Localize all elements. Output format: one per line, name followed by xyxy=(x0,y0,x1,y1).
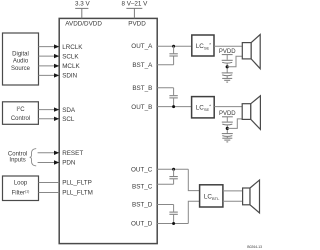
svg-text:SCL: SCL xyxy=(62,116,75,123)
block Digital Audio Source xyxy=(3,33,39,85)
svg-text:OUT_C: OUT_C xyxy=(131,166,153,173)
capacitor divider B lower (polarized) xyxy=(222,133,233,135)
node OUT_D junction xyxy=(172,222,175,225)
wire SCLK xyxy=(39,55,56,57)
wire speaker B return xyxy=(227,119,242,128)
wire OUT_C elbow to LC_BTL xyxy=(188,169,199,190)
svg-text:8 V–21 V: 8 V–21 V xyxy=(121,1,148,8)
wire speaker A return xyxy=(227,56,242,67)
svg-text:B0264-13: B0264-13 xyxy=(247,245,262,249)
svg-text:SCLK: SCLK xyxy=(62,53,79,60)
svg-text:LRCLK: LRCLK xyxy=(62,44,83,51)
svg-text:LCSE*: LCSE* xyxy=(196,104,211,113)
wire OUT_A xyxy=(157,45,192,47)
arrowhead SCL xyxy=(54,117,59,121)
wire BST_B xyxy=(157,87,173,89)
capacitor divider B upper (polarized) xyxy=(222,121,233,123)
wire SDIN xyxy=(39,74,56,76)
arrowhead SDIN xyxy=(54,73,59,77)
wire LC_BTL to speaker top xyxy=(223,190,243,192)
svg-text:Control: Control xyxy=(8,151,27,157)
svg-text:SDA: SDA xyxy=(62,107,76,114)
wire SDA xyxy=(38,109,55,111)
wire PLL_FLTP xyxy=(39,182,60,184)
wire OUT_B xyxy=(157,106,191,108)
svg-text:PVDD: PVDD xyxy=(219,111,236,117)
speaker C/D xyxy=(243,188,250,205)
wire OUT_D xyxy=(157,223,188,225)
ground (channel A) xyxy=(222,77,232,79)
brace for control inputs xyxy=(30,149,37,166)
wire BST_C xyxy=(157,183,173,185)
svg-text:LCSE*: LCSE* xyxy=(196,42,211,51)
svg-text:AVDD/DVDD: AVDD/DVDD xyxy=(65,21,102,28)
capacitor C_BST_A xyxy=(169,53,177,55)
wire bootstrap A vertical xyxy=(173,46,175,53)
wire 8V-21V to PVDD xyxy=(133,8,135,18)
svg-text:Control: Control xyxy=(11,116,30,122)
arrowhead MCLK xyxy=(54,64,59,68)
svg-text:BST_D: BST_D xyxy=(132,202,153,209)
svg-text:SDIN: SDIN xyxy=(62,73,77,80)
svg-text:OUT_B: OUT_B xyxy=(131,104,152,111)
wire PLL_FLTM xyxy=(39,192,60,194)
wire bootstrap C vertical xyxy=(173,169,175,176)
svg-text:RESET: RESET xyxy=(62,150,83,157)
speaker B xyxy=(242,104,251,120)
svg-text:BST_B: BST_B xyxy=(132,85,152,92)
arrowhead SDA xyxy=(54,107,59,111)
wire BST_A xyxy=(157,64,173,66)
svg-text:PVDD: PVDD xyxy=(128,21,146,28)
LC filter block B (LC_SE) xyxy=(192,97,215,118)
wire cap B to ground xyxy=(226,137,228,139)
node OUT_B junction xyxy=(172,105,175,108)
power rail bar PVDD A xyxy=(222,54,233,56)
power rail bar 3.3V xyxy=(75,7,88,9)
svg-text:BST_A: BST_A xyxy=(132,62,153,69)
arrowhead LRCLK xyxy=(54,44,59,48)
svg-text:OUT_A: OUT_A xyxy=(131,43,153,50)
wire PDN xyxy=(38,162,56,164)
wire BST_D xyxy=(157,204,173,206)
capacitor C_BST_B xyxy=(169,95,177,97)
wire cap A to ground xyxy=(226,76,228,78)
wire PVDD B down xyxy=(226,117,228,122)
svg-text:OUT_D: OUT_D xyxy=(131,221,153,228)
capacitor divider A lower (polarized) xyxy=(222,72,233,74)
arrowhead SCLK xyxy=(54,54,59,58)
wire OUT_D elbow to LC_BTL xyxy=(188,201,199,223)
svg-text:PLL_FLTP: PLL_FLTP xyxy=(62,180,92,187)
svg-text:I2C: I2C xyxy=(16,105,25,113)
wire SCL xyxy=(38,118,55,120)
svg-text:PDN: PDN xyxy=(62,160,76,167)
LC filter block C/D (LC_BTL) xyxy=(200,185,223,207)
ground (channel B) xyxy=(222,137,232,139)
wire bootstrap D vertical xyxy=(173,205,175,212)
block Loop Filter xyxy=(3,176,39,201)
node OUT_C junction xyxy=(172,168,175,171)
node A divider midpoint xyxy=(226,65,229,68)
arrowhead PDN xyxy=(54,160,59,164)
svg-text:Digital: Digital xyxy=(12,51,29,57)
svg-text:3.3 V: 3.3 V xyxy=(75,1,91,8)
power rail bar 8V-21V xyxy=(126,7,142,9)
capacitor C_BST_D xyxy=(169,211,177,213)
wire to node B midpoint xyxy=(226,125,228,133)
wire to node A midpoint xyxy=(226,63,228,73)
block I2C Control xyxy=(3,102,39,125)
wire 3.3V to AVDD/DVDD xyxy=(81,8,83,18)
wire LC_B to speaker B xyxy=(214,106,242,108)
power rail bar PVDD B xyxy=(222,116,233,118)
wire bootstrap B vertical xyxy=(173,88,175,95)
svg-text:PVDD: PVDD xyxy=(219,49,236,55)
svg-text:BST_C: BST_C xyxy=(132,183,153,190)
wire RESET xyxy=(38,152,56,154)
capacitor C_BST_C xyxy=(169,176,177,178)
wire LC_BTL to speaker bottom xyxy=(223,200,243,202)
svg-text:PLL_FLTM: PLL_FLTM xyxy=(62,190,93,197)
arrowhead RESET xyxy=(54,151,59,155)
wire MCLK xyxy=(39,65,56,67)
node B divider midpoint xyxy=(226,127,229,130)
node OUT_A junction xyxy=(172,45,175,48)
svg-text:MCLK: MCLK xyxy=(62,63,80,70)
svg-text:Source: Source xyxy=(11,66,31,72)
svg-text:Audio: Audio xyxy=(13,59,29,65)
wire LC_A to speaker A xyxy=(214,45,242,47)
LC filter block A (LC_SE) xyxy=(192,35,214,56)
wire LRCLK xyxy=(39,46,56,48)
svg-text:Loop: Loop xyxy=(14,181,28,187)
speaker A xyxy=(242,43,251,59)
capacitor divider A upper (polarized) xyxy=(222,59,233,61)
IC U1 (main amplifier block) xyxy=(59,18,157,243)
wire OUT_C xyxy=(157,168,188,170)
wire PVDD A down xyxy=(226,55,228,60)
svg-text:Inputs: Inputs xyxy=(9,158,25,164)
